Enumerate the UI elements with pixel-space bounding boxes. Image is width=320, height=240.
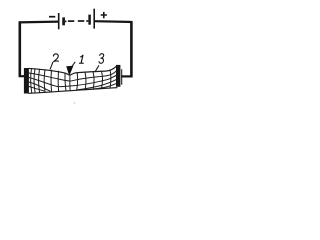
background [0,0,138,106]
label 2 (drawn glyph) [53,54,58,62]
mesh line 5 right fan (merges into bottom) [91,83,117,89]
mesh line 5 left fan (merges into bottom) [29,87,44,91]
right electrode back plate line [121,69,123,85]
leader line of label 2 [50,62,53,70]
wire left vertical [18,21,21,76]
battery cell 1 short plate [62,17,65,25]
battery dashed link (omitted cells) [65,20,66,22]
label 1 (drawn glyph) [80,55,84,63]
battery cell 1 long plate [58,13,60,29]
battery cell 2 long plate [93,9,95,29]
mesh vertical ribs right group [76,73,79,90]
leader line of label 1 [72,62,76,67]
wire top-left horizontal [19,21,59,24]
mesh horizontal line 3 [29,75,117,87]
mesh vertical rib under arrow tip [69,77,71,91]
photocell 2: left electrode [24,68,29,94]
mesh line 4 left fan (merges into bottom) [29,82,50,91]
mesh vertical ribs left group [31,69,32,94]
battery GB: minus polarity mark [49,16,55,18]
mesh horizontal line 2 [29,70,117,81]
battery cell 2 short plate [88,15,91,25]
mesh line 4 right fan (merges into bottom) [77,79,117,90]
photocell 3: right electrode [116,65,120,87]
wire stub to right electrode [121,75,133,77]
wire top-right horizontal [94,20,132,23]
photocell 1: semiconductor mesh surface [29,66,117,94]
wire stub to left electrode [19,75,26,77]
leader line of label 3 [95,65,99,71]
paper speck [74,102,76,104]
wire right vertical [130,21,133,76]
mesh bottom edge [29,88,117,94]
plus polarity mark [101,12,107,18]
mesh top edge with V-notch [29,66,117,76]
light-ray arrow (label 1 pointer) [66,66,73,76]
label 3 (drawn glyph) [99,54,104,64]
